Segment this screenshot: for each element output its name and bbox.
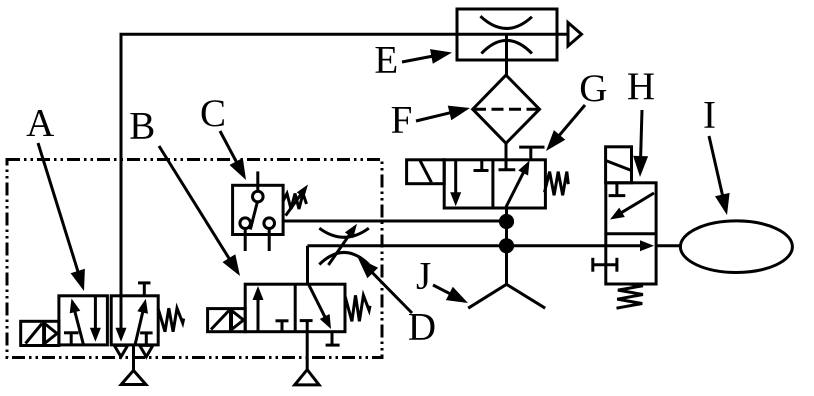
- label I pointer arrow: [709, 136, 730, 215]
- throttle valve D adjustment arrow: [328, 224, 357, 265]
- switch C lever: [250, 202, 257, 230]
- switch C top contact circle: [252, 191, 263, 202]
- wire filter F to valve G: [505, 143, 508, 169]
- label C pointer arrow: [220, 131, 246, 180]
- svg-text:F: F: [391, 99, 413, 142]
- switch C bottom right contact circle: [264, 218, 275, 229]
- valve B right square diagonal arrow: [309, 284, 332, 329]
- svg-text:C: C: [200, 92, 226, 135]
- throttle E body: [457, 9, 557, 60]
- valve A left square up arrow: [70, 299, 84, 345]
- valve G solenoid pilot box: [407, 160, 445, 184]
- switch C bottom stubs: [245, 228, 269, 251]
- wire top rail to valve A pilot: [121, 34, 568, 329]
- throttle valve D arcs: [319, 228, 369, 264]
- throttle E exhaust triangle: [568, 23, 582, 47]
- valve G left square down arrow: [450, 160, 461, 207]
- valve B solenoid pilot box: [208, 309, 246, 332]
- valve G top exhaust T: [519, 147, 544, 160]
- throttle E lower arc: [481, 40, 532, 53]
- valve A right square up arrow: [135, 299, 148, 346]
- svg-text:A: A: [26, 102, 54, 145]
- svg-text:G: G: [579, 67, 607, 110]
- valve A exhaust triangle bottom right: [140, 345, 153, 356]
- valve A right square down arrowhead from pilot rail: [116, 328, 127, 342]
- valve H flow path arrow: [606, 240, 654, 251]
- wire switch C to junction node: [283, 220, 506, 223]
- valve H top square diagonal arrow: [610, 193, 654, 220]
- valve A return spring: [158, 308, 184, 332]
- valve H bottom left blocked port: [593, 258, 617, 272]
- valve A solenoid pilot box: [21, 321, 59, 345]
- wire between junction nodes: [505, 222, 508, 246]
- valve B left square blocked port T: [276, 321, 289, 332]
- valve G left square blocked port T: [474, 160, 489, 171]
- valve A left square blocked port T: [64, 333, 79, 345]
- wire valve H to balloon I: [656, 244, 680, 247]
- label E pointer arrow: [402, 49, 452, 64]
- label B pointer arrow: [159, 146, 240, 276]
- switch C adjustable spring: [283, 194, 306, 210]
- valve H solenoid pilot box: [606, 147, 632, 183]
- valve A right square bottom T: [140, 333, 153, 346]
- label F pointer arrow: [416, 106, 470, 121]
- valve H return spring: [617, 284, 643, 308]
- switch C bottom left contact circle: [240, 218, 251, 229]
- valve A left square down arrow: [90, 297, 101, 342]
- valve G 3/2 body: [444, 160, 545, 208]
- valve G filter port T bar: [499, 168, 516, 171]
- wire E to filter F: [505, 34, 508, 75]
- valve A body right square: [111, 296, 158, 345]
- label J pointer arrow: [433, 285, 468, 303]
- nozzle J fork: [468, 246, 545, 308]
- valve G return spring: [545, 172, 569, 196]
- valve B left square up arrow: [253, 286, 264, 332]
- valve H top square blocked port T: [609, 183, 626, 196]
- label G pointer arrow: [546, 105, 585, 151]
- valve B bottom port T: [326, 332, 340, 345]
- svg-text:E: E: [374, 39, 398, 82]
- valve H 3/2 body: [606, 183, 656, 284]
- balloon I ellipse: [680, 221, 792, 273]
- valve B right square blocked port T with exhaust line and muffler triangle: [295, 321, 319, 385]
- switch C box: [233, 185, 284, 234]
- valve A top port T: [138, 283, 151, 297]
- filter F element dashed: [474, 108, 538, 111]
- junction node upper: [499, 214, 514, 229]
- valve B return spring: [345, 295, 370, 321]
- valve A exhaust line and muffler triangle: [121, 345, 146, 384]
- valve A exhaust triangle bottom left: [114, 345, 127, 356]
- svg-text:H: H: [627, 65, 655, 108]
- junction node lower: [499, 238, 514, 253]
- label D pointer arrow: [358, 258, 412, 313]
- switch C top stub: [256, 171, 259, 191]
- enclosure dash-dot box: [7, 160, 382, 358]
- svg-text:B: B: [129, 104, 155, 147]
- valve A 5/2 body left square: [59, 296, 108, 345]
- wire main line to valve H: [308, 244, 606, 247]
- filter F diamond: [473, 75, 540, 143]
- valve B 3/2 body: [245, 284, 345, 332]
- svg-text:J: J: [416, 255, 431, 298]
- wire down to valve B: [306, 246, 309, 284]
- label H pointer arrow: [633, 110, 648, 177]
- svg-text:I: I: [703, 93, 716, 136]
- label A pointer arrow: [38, 143, 85, 291]
- valve G right square diagonal arrow: [506, 161, 530, 223]
- throttle E upper arc: [480, 16, 532, 28]
- switch C adjustment arrow: [286, 185, 308, 216]
